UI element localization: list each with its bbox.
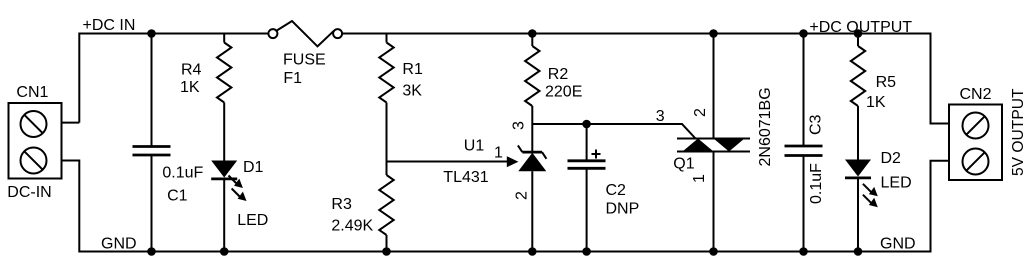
svg-text:Q1: Q1 — [673, 156, 694, 173]
svg-text:0.1uF: 0.1uF — [162, 165, 203, 182]
svg-text:DC-IN: DC-IN — [7, 184, 51, 201]
svg-text:FUSE: FUSE — [283, 52, 326, 69]
svg-text:C3: C3 — [808, 114, 825, 135]
svg-text:F1: F1 — [283, 70, 302, 87]
svg-text:CN2: CN2 — [960, 86, 992, 103]
svg-text:2: 2 — [514, 191, 531, 200]
resistor R4 — [217, 34, 231, 161]
svg-text:D2: D2 — [881, 150, 902, 167]
LED D1 — [211, 161, 237, 252]
resistor R3 — [379, 175, 393, 252]
junction dot C2 top — [582, 120, 591, 129]
junction dot Q1 bottom — [709, 247, 718, 256]
junction dot Q1 top — [709, 29, 718, 38]
U1 reference pin arrow — [507, 156, 519, 167]
junction dot C1 bottom — [147, 247, 156, 256]
svg-text:R1: R1 — [402, 61, 423, 78]
svg-text:3: 3 — [656, 108, 665, 125]
svg-text:2.49K: 2.49K — [331, 218, 373, 235]
resistor R5 — [851, 34, 865, 160]
svg-text:GND: GND — [101, 236, 137, 253]
connector CN1 — [9, 103, 62, 179]
svg-text:R5: R5 — [876, 74, 897, 91]
junction dot C3 bottom — [799, 247, 808, 256]
svg-text:TL431: TL431 — [443, 169, 488, 186]
wire CN1 upper pin stub — [62, 122, 80, 124]
LED D2 light arrows — [863, 184, 878, 207]
svg-text:CN1: CN1 — [16, 84, 48, 101]
capacitor C1 — [133, 34, 171, 252]
junction dot C3 top — [799, 29, 808, 38]
svg-text:R2: R2 — [548, 66, 569, 83]
svg-text:R4: R4 — [181, 61, 202, 78]
connector CN2 — [949, 105, 1002, 181]
junction dot R5 top — [854, 29, 863, 38]
svg-text:GND: GND — [880, 236, 916, 253]
junction dot R3 bottom — [382, 247, 391, 256]
svg-text:1K: 1K — [180, 79, 200, 96]
svg-text:LED: LED — [237, 212, 268, 229]
svg-text:1K: 1K — [866, 94, 886, 111]
svg-text:1: 1 — [691, 174, 708, 183]
svg-text:3K: 3K — [402, 83, 422, 100]
svg-text:LED: LED — [881, 175, 912, 192]
wire +DC rail from fuse to CN2 — [342, 34, 949, 124]
svg-text:5V OUTPUT: 5V OUTPUT — [1010, 88, 1024, 176]
junction dot D1 bottom — [220, 247, 229, 256]
svg-text:DNP: DNP — [606, 201, 640, 218]
svg-text:1: 1 — [494, 145, 503, 162]
junction dot C2 bottom — [582, 247, 591, 256]
capacitor C2 — [568, 124, 606, 252]
junction dot R2 top — [528, 29, 537, 38]
triac Q1 — [677, 34, 750, 252]
svg-text:C1: C1 — [167, 188, 188, 205]
svg-text:D1: D1 — [243, 159, 264, 176]
svg-text:U1: U1 — [464, 137, 485, 154]
resistor R2 — [525, 34, 539, 153]
capacitor C3 — [785, 34, 823, 252]
wire U1 reference line from R1/R3 divider — [387, 161, 509, 163]
C2 polarity + mark — [592, 150, 601, 159]
wire +DC IN rail from CN1 to fuse — [79, 34, 268, 123]
fuse F1 — [268, 21, 342, 46]
junction dot D2 bottom — [854, 247, 863, 256]
LED D1 light arrows — [229, 176, 247, 202]
svg-text:C2: C2 — [606, 182, 627, 199]
LED D2 — [845, 160, 871, 252]
wire GND bottom rail — [62, 161, 949, 252]
shunt regulator U1 TL431 — [518, 145, 547, 251]
svg-text:2: 2 — [692, 108, 709, 117]
svg-text:220E: 220E — [545, 84, 582, 101]
svg-text:+DC IN: +DC IN — [83, 17, 136, 34]
svg-text:2N6071BG: 2N6071BG — [757, 87, 774, 166]
junction dot C1 top — [147, 29, 156, 38]
junction dot U1 anode bottom — [528, 247, 537, 256]
svg-text:0.1uF: 0.1uF — [808, 163, 825, 204]
svg-text:3: 3 — [511, 121, 528, 130]
resistor R1 — [379, 34, 393, 176]
svg-text:R3: R3 — [331, 196, 352, 213]
wire U1 cathode to Q1 gate — [532, 124, 695, 139]
